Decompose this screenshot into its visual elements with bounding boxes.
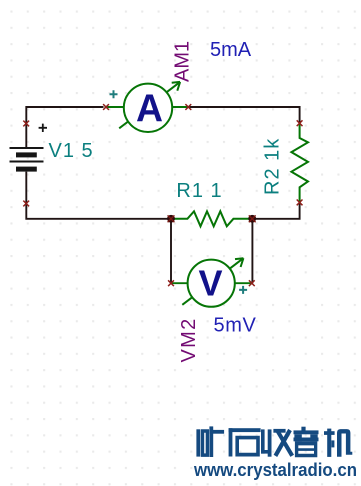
voltmeter VM2 circle	[188, 260, 235, 307]
voltmeter letter V	[198, 262, 222, 303]
svg-text:A: A	[136, 87, 163, 130]
voltmeter VM2 arrow	[182, 258, 243, 305]
ammeter plus sign	[110, 90, 118, 98]
node B junction dot	[248, 215, 256, 223]
node A junction dot	[167, 215, 175, 223]
ammeter AM1 arrow	[119, 82, 180, 128]
battery label V1 5	[49, 140, 94, 162]
watermark logo yin (音)	[294, 427, 319, 457]
pin x battery bottom	[23, 201, 29, 207]
resistor R1	[171, 211, 252, 226]
pin x R2 top	[297, 120, 303, 126]
svg-text:5mV: 5mV	[214, 314, 257, 336]
ammeter reading 5mA	[210, 39, 252, 61]
svg-text:www.crystalradio.cn: www.crystalradio.cn	[193, 460, 357, 480]
watermark url www.crystalradio.cn	[193, 460, 357, 480]
ammeter label AM1	[172, 41, 194, 82]
wire bottom from battery to node A	[26, 172, 171, 219]
svg-text:R2 1k: R2 1k	[261, 138, 283, 195]
wire from R2 bottom to node B	[252, 202, 299, 219]
svg-text:V: V	[198, 262, 222, 303]
battery V1	[10, 148, 44, 172]
ammeter AM1 circle	[124, 84, 172, 132]
svg-text:AM1: AM1	[172, 41, 194, 82]
watermark logo kuang (矿)	[196, 426, 224, 457]
wire node B down to voltmeter right	[251, 219, 253, 283]
watermark logo shi (石)	[229, 428, 261, 456]
watermark logo shou (收)	[261, 429, 294, 457]
wire from ammeter to R2 top	[189, 107, 300, 123]
resistor R2	[291, 123, 308, 202]
svg-text:VM2: VM2	[178, 317, 200, 362]
voltmeter pins	[171, 282, 252, 284]
battery plus sign	[39, 124, 47, 132]
wire node A down to voltmeter left	[170, 219, 172, 283]
wire top from battery to ammeter	[26, 107, 103, 148]
voltmeter plus sign	[239, 286, 247, 294]
svg-text:5mA: 5mA	[210, 39, 252, 61]
pin x ammeter right	[185, 104, 191, 110]
pin x R2 bottom	[297, 200, 303, 206]
pin x voltmeter right	[249, 280, 255, 286]
svg-text:V1 5: V1 5	[49, 140, 94, 162]
ammeter pins	[105, 106, 189, 108]
svg-text:R1 1: R1 1	[176, 180, 222, 202]
ammeter letter A	[136, 87, 163, 130]
pin x ammeter left	[103, 104, 109, 110]
resistor label R1 1	[176, 180, 222, 202]
pin x battery top	[23, 121, 29, 127]
pin x voltmeter left	[168, 280, 174, 286]
voltmeter label VM2	[178, 317, 200, 362]
resistor label R2 1k	[261, 138, 283, 195]
voltmeter reading 5mV	[214, 314, 257, 336]
watermark logo ji (机)	[324, 429, 352, 457]
